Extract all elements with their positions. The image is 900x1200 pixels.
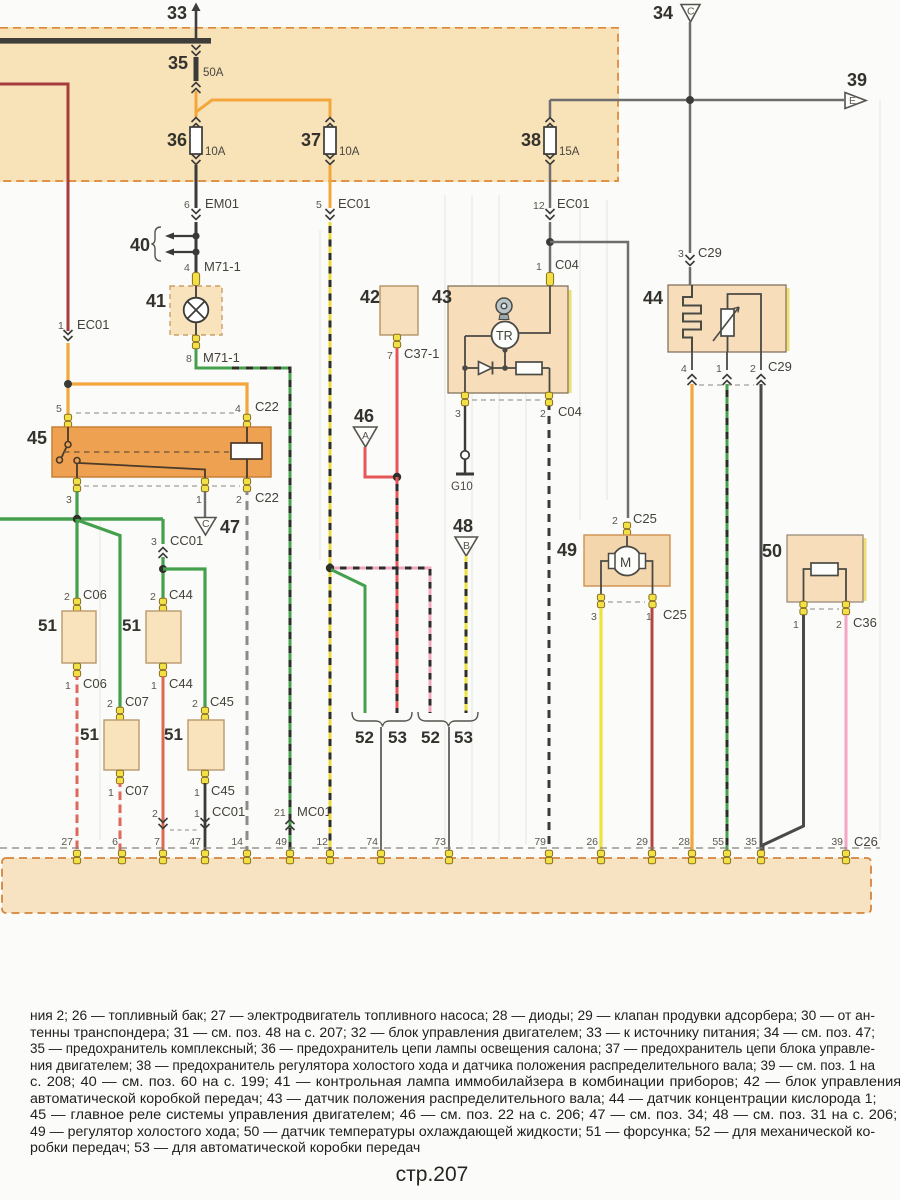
wire black-white dashed 43 pin2 to ECU pin 79 <box>548 406 551 851</box>
svg-text:G10: G10 <box>451 481 473 493</box>
svg-text:51: 51 <box>122 616 141 635</box>
ECU pin connectors row <box>73 850 849 864</box>
svg-text:40: 40 <box>130 235 150 255</box>
svg-text:5: 5 <box>316 199 322 211</box>
coolant temperature sensor 50 <box>762 535 867 602</box>
svg-text:44: 44 <box>643 288 663 308</box>
svg-text:M71-1: M71-1 <box>203 350 240 365</box>
wire red from bus to EC01 pin 1 <box>0 84 110 341</box>
wire 39 horizontal bus to E <box>550 70 867 109</box>
wire red injector2 through CC01 pin2 to pin 7 <box>152 676 168 851</box>
svg-text:C04: C04 <box>558 404 582 419</box>
svg-text:C44: C44 <box>169 587 193 602</box>
svg-text:2: 2 <box>540 408 546 420</box>
svg-text:10A: 10A <box>339 146 360 158</box>
svg-text:47: 47 <box>220 517 240 537</box>
wire black 44 pin2 to ECU pin 35 <box>760 384 763 851</box>
svg-text:7: 7 <box>387 350 393 362</box>
connector M71-1 pin 4 <box>184 259 241 286</box>
svg-text:5: 5 <box>56 403 62 415</box>
connector C22 pins 3,1,2 (relay bottom) <box>66 478 279 506</box>
svg-text:14: 14 <box>231 836 243 848</box>
svg-text:51: 51 <box>164 725 183 744</box>
svg-text:41: 41 <box>146 291 166 311</box>
node 46 (see pos.22 p.206, triangle A) <box>354 406 396 477</box>
fuse 36 (10A interior lamp circuit) <box>167 118 226 165</box>
svg-text:EC01: EC01 <box>77 317 110 332</box>
wire orange branch to fuse37 <box>196 100 330 117</box>
node 48 (see pos.31 p.206, triangle B) <box>453 516 478 556</box>
relay K45 main engine control relay <box>27 427 271 479</box>
svg-text:2: 2 <box>107 698 113 710</box>
svg-text:M71-1: M71-1 <box>204 259 241 274</box>
idle air regulator 49 <box>557 511 670 595</box>
svg-text:3: 3 <box>66 494 72 506</box>
svg-text:CC01: CC01 <box>170 533 203 548</box>
svg-text:1: 1 <box>536 261 542 273</box>
wire green branch to brace 52 (manual gearbox) <box>331 570 365 714</box>
wire red-white dashed injector1 to pin 27 <box>76 676 79 851</box>
wire orange EC01 to relay 45 <box>64 343 247 415</box>
svg-text:C22: C22 <box>255 490 279 505</box>
wire pink-black dashed branch to brace 52 (automatic) <box>334 568 430 713</box>
node 47 (see pos.34, triangle C) <box>195 491 240 537</box>
svg-text:E: E <box>849 95 856 107</box>
svg-text:34: 34 <box>653 3 673 23</box>
wire red-white dashed injector3 to pin 6 <box>119 783 122 851</box>
svg-text:C37-1: C37-1 <box>404 346 439 361</box>
connector C04 pins 3 and 2 (bottom of 43) <box>455 392 582 420</box>
svg-text:2: 2 <box>150 591 156 603</box>
svg-text:50: 50 <box>762 541 782 561</box>
svg-text:1: 1 <box>194 787 200 799</box>
wire green relay pin3 distribution <box>0 491 163 713</box>
svg-text:2: 2 <box>64 591 70 603</box>
svg-text:4: 4 <box>681 363 687 375</box>
svg-text:1: 1 <box>793 619 799 631</box>
svg-text:49: 49 <box>557 540 577 560</box>
svg-text:2: 2 <box>152 808 158 820</box>
svg-text:73: 73 <box>434 836 446 848</box>
power bus bar <box>0 38 211 44</box>
injector 51 no.3 <box>80 694 149 799</box>
wire pink 50 pin2 to ECU pin 39 <box>845 615 848 851</box>
wire gray fuse38 down through EC01 pin 12 <box>533 165 590 272</box>
oxygen sensor 44 <box>643 285 790 352</box>
svg-text:52: 52 <box>355 728 374 747</box>
svg-text:37: 37 <box>301 130 321 150</box>
svg-text:12: 12 <box>533 200 545 212</box>
svg-text:A: A <box>362 430 369 442</box>
svg-text:43: 43 <box>432 287 452 307</box>
connector C04 pin 1 <box>536 257 579 286</box>
svg-text:4: 4 <box>184 262 190 274</box>
svg-text:3: 3 <box>591 611 597 623</box>
svg-text:C07: C07 <box>125 783 149 798</box>
wire yellow 49 pin3 to ECU pin 26 <box>599 608 602 851</box>
svg-text:45: 45 <box>27 428 47 448</box>
ECU connector dashed line C26 <box>0 847 880 849</box>
svg-text:2: 2 <box>192 698 198 710</box>
svg-text:1: 1 <box>58 320 64 332</box>
connector M71-1 pin 8 <box>186 335 240 365</box>
svg-text:35: 35 <box>168 53 188 73</box>
junction red wires <box>393 473 401 481</box>
svg-text:C: C <box>202 518 210 530</box>
svg-text:51: 51 <box>80 725 99 744</box>
wire green-black dashed lamp to MC01 to ECU pin 49 <box>196 349 290 851</box>
svg-text:TR: TR <box>496 329 513 343</box>
svg-text:55: 55 <box>712 836 724 848</box>
wire EM01 black from fuse 36 <box>184 165 239 272</box>
ECU box 42 (automatic transmission control unit) <box>360 286 439 362</box>
fuse 37 (10A ECU circuit) <box>301 118 360 165</box>
wire orange 44 pin4 to ECU pin 28 <box>690 384 693 851</box>
svg-text:52: 52 <box>421 728 440 747</box>
svg-text:MC01: MC01 <box>297 804 332 819</box>
svg-text:3: 3 <box>455 408 461 420</box>
wire green-black dashed 44 pin1 to ECU pin 55 <box>726 384 729 851</box>
ground G10 <box>451 406 474 493</box>
svg-text:38: 38 <box>521 130 541 150</box>
svg-text:C04: C04 <box>555 257 579 272</box>
wire gray merged to ECU pin 73 <box>448 727 450 851</box>
svg-text:C29: C29 <box>698 245 722 260</box>
engine control unit 32 connector strip box <box>2 858 871 913</box>
svg-text:46: 46 <box>354 406 374 426</box>
connector CC01 pin 3 on green wire <box>151 533 203 604</box>
svg-text:EC01: EC01 <box>557 196 590 211</box>
svg-text:6: 6 <box>112 836 118 848</box>
svg-text:47: 47 <box>189 836 201 848</box>
fuse 35 (50A complex fuse) <box>168 45 224 93</box>
svg-text:1: 1 <box>151 680 157 692</box>
svg-text:C36: C36 <box>853 615 877 630</box>
wire red-black dashed down to brace 53 <box>396 477 399 713</box>
wire gray-white dashed relay pin2 to ECU pin 14 <box>246 491 249 851</box>
brace pair 52/53 left (wires merge) <box>352 712 412 747</box>
svg-text:C25: C25 <box>663 607 687 622</box>
svg-text:8: 8 <box>186 353 192 365</box>
fuse 38 (15A idle regulator / cam sensor) <box>521 100 580 165</box>
svg-text:1: 1 <box>194 808 200 820</box>
ECU pin numbers row <box>61 836 843 848</box>
svg-text:15A: 15A <box>559 146 580 158</box>
svg-text:C06: C06 <box>83 587 107 602</box>
green junction to injectors 2 and 4 <box>159 565 205 713</box>
svg-text:3: 3 <box>678 248 684 260</box>
injector 51 no.1 <box>38 587 107 692</box>
svg-text:2: 2 <box>836 619 842 631</box>
svg-text:CC01: CC01 <box>212 804 245 819</box>
svg-text:36: 36 <box>167 130 187 150</box>
svg-text:1: 1 <box>65 680 71 692</box>
wire red C37-1 down <box>396 348 399 477</box>
svg-text:51: 51 <box>38 616 57 635</box>
svg-text:53: 53 <box>388 728 407 747</box>
svg-text:10A: 10A <box>205 146 226 158</box>
connector MC01 pin 21 <box>274 804 332 830</box>
node 34 (from pos.47, triangle C) and wire down to C29 <box>653 3 700 253</box>
svg-text:7: 7 <box>154 836 160 848</box>
svg-text:33: 33 <box>167 3 187 23</box>
svg-text:50A: 50A <box>203 67 224 79</box>
svg-text:EC01: EC01 <box>338 196 371 211</box>
svg-text:1: 1 <box>716 363 722 375</box>
svg-text:1: 1 <box>196 494 202 506</box>
svg-text:39: 39 <box>831 836 843 848</box>
svg-text:C45: C45 <box>210 694 234 709</box>
svg-text:6: 6 <box>184 199 190 211</box>
svg-text:C45: C45 <box>211 783 235 798</box>
svg-text:C07: C07 <box>125 694 149 709</box>
svg-text:49: 49 <box>275 836 287 848</box>
svg-text:48: 48 <box>453 516 473 536</box>
wire yellow-black dashed from node 48 to brace 53 <box>465 556 468 713</box>
svg-text:EM01: EM01 <box>205 196 239 211</box>
svg-text:1: 1 <box>108 787 114 799</box>
svg-text:2: 2 <box>612 515 618 527</box>
brace pair 52/53 right (wires merge) <box>418 712 478 747</box>
svg-text:29: 29 <box>636 836 648 848</box>
junction and branch to idle regulator 49 <box>546 238 628 518</box>
svg-text:3: 3 <box>151 536 157 548</box>
svg-text:C22: C22 <box>255 399 279 414</box>
sensor 43 camshaft position sensor <box>432 286 572 393</box>
connector C25 pins 3 and 1 (bottom of 49) <box>591 594 687 623</box>
svg-text:C: C <box>687 6 695 18</box>
svg-text:B: B <box>463 540 470 552</box>
connector C22 pins 5 and 4 (relay top) <box>56 399 279 428</box>
svg-text:27: 27 <box>61 836 73 848</box>
junction on EC01 wire <box>326 564 334 572</box>
node 40 (see pos.60 p.199) two branch arrows with brace <box>130 227 200 261</box>
wire black injector4 through CC01 pin1 to pin 47 <box>170 783 245 851</box>
svg-text:28: 28 <box>678 836 690 848</box>
lamp U41 immobilizer warning lamp <box>146 286 222 335</box>
svg-text:39: 39 <box>847 70 867 90</box>
svg-text:C29: C29 <box>768 359 792 374</box>
svg-text:35: 35 <box>745 836 757 848</box>
svg-text:C26: C26 <box>854 834 878 849</box>
svg-text:79: 79 <box>534 836 546 848</box>
svg-text:C06: C06 <box>83 676 107 691</box>
svg-text:2: 2 <box>236 494 242 506</box>
connector C29 pin 3 marks <box>678 245 722 285</box>
wire gray 50 pin1 bends to ECU pin 35 <box>763 615 804 851</box>
fuse box band (top beige panel) <box>0 27 619 182</box>
svg-text:C44: C44 <box>169 676 193 691</box>
svg-text:53: 53 <box>454 728 473 747</box>
injector 51 no.4 <box>164 694 235 799</box>
connector C29 pins 4,1,2 (bottom of 44) <box>681 352 792 385</box>
connector C36 pins 1 and 2 (bottom of 50) <box>793 601 877 631</box>
node 33 (to power source) <box>167 3 201 39</box>
junction on wire 39 <box>686 96 694 104</box>
wire gray merged to ECU pin 74 <box>380 727 382 851</box>
svg-text:C25: C25 <box>633 511 657 526</box>
svg-text:21: 21 <box>274 807 286 819</box>
svg-text:2: 2 <box>750 363 756 375</box>
svg-text:12: 12 <box>316 836 328 848</box>
svg-text:74: 74 <box>366 836 378 848</box>
wire yellow-black dashed EC01 from fuse37 to ECU pin 12 <box>316 165 371 851</box>
svg-text:26: 26 <box>586 836 598 848</box>
wire orange fuse35 to fuse36 <box>195 91 198 117</box>
injector 51 no.2 <box>122 587 193 692</box>
svg-text:M: M <box>620 555 631 570</box>
wire dark-red 49 pin1 to ECU pin 29 <box>651 608 654 851</box>
svg-text:4: 4 <box>235 403 241 415</box>
svg-text:42: 42 <box>360 287 380 307</box>
